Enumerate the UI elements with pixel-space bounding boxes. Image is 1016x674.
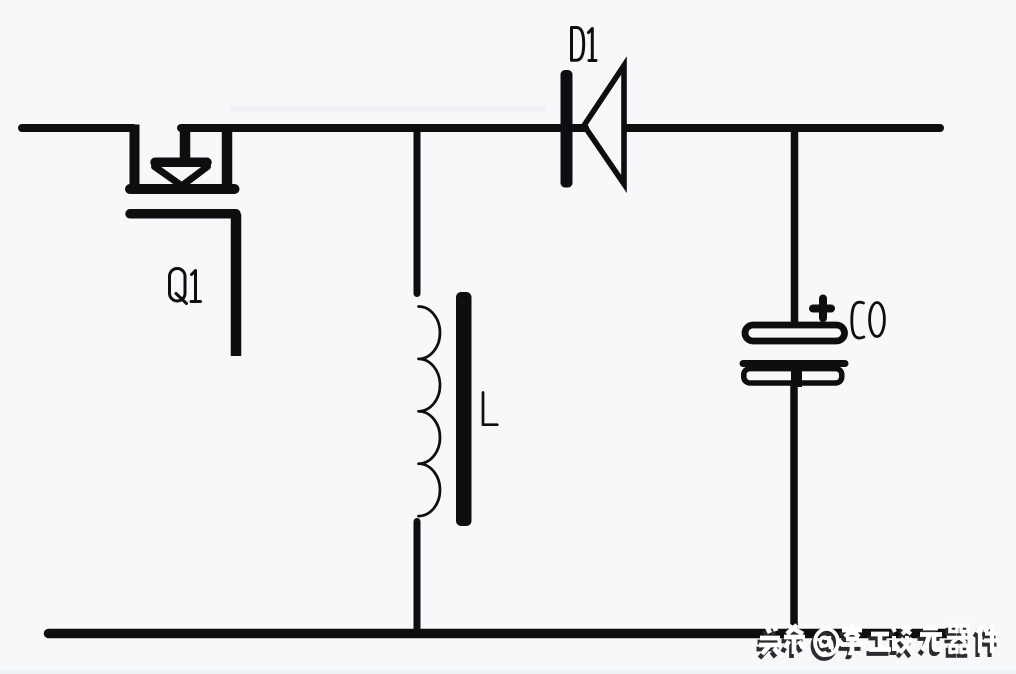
wire Q1 body lead from top rail: [180, 125, 191, 163]
label C0: [852, 302, 885, 338]
wire Q1 drain lead down to channel bar: [222, 125, 233, 190]
wire inductor bottom lead to bottom rail: [414, 522, 421, 633]
wire capacitor bottom lead to bottom rail: [791, 360, 802, 387]
wire Q1 source lead down to channel bar: [130, 125, 140, 190]
wire Q1 gate lead stub: [231, 214, 242, 356]
transistor Q1 gate plate: [130, 209, 236, 219]
wire capacitor top lead from top rail: [791, 130, 799, 321]
inductor L core bar: [456, 292, 472, 526]
wire top rail middle segment to diode D1: [181, 124, 585, 132]
label D1: [572, 28, 597, 61]
label Q1: [170, 269, 201, 304]
transistor Q1 channel bar: [130, 184, 235, 194]
capacitor C0 bottom plate: [743, 364, 845, 384]
faint gray strip at bottom edge: [0, 670, 1016, 674]
capacitor C0 top plate: [745, 325, 845, 341]
wire bottom rail: [49, 629, 950, 639]
label L: [483, 393, 497, 425]
diode D1 cathode bar: [561, 70, 573, 188]
inductor L winding: [419, 307, 441, 517]
wire inductor top lead from top rail: [414, 130, 421, 294]
faint pencil smudge above top rail: [230, 106, 545, 112]
capacitor C0 polarity plus sign: [813, 299, 831, 319]
wire top rail right segment from diode to right end: [626, 124, 940, 132]
watermark text 头条@李工谈元器件: [757, 624, 1000, 659]
diode D1 anode triangle: [584, 66, 624, 185]
wire top rail left segment: [22, 124, 133, 132]
transistor Q1 body arrow: [155, 162, 208, 186]
